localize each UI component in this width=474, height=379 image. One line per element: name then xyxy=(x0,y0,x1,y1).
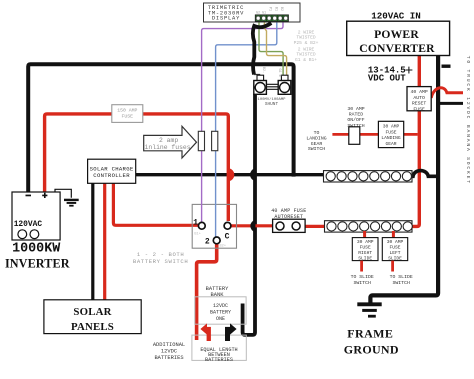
svg-text:FUSE: FUSE xyxy=(389,245,400,251)
power converter box xyxy=(347,21,450,55)
svg-text:BATTERIES: BATTERIES xyxy=(154,355,183,361)
svg-text:G2: G2 xyxy=(256,12,260,16)
svg-text:INVERTER: INVERTER xyxy=(5,256,70,270)
solar panels box xyxy=(44,300,141,334)
svg-text:RATED: RATED xyxy=(349,112,364,118)
svg-text:G1: G1 xyxy=(262,12,266,16)
40 AMP auto reset fuse box xyxy=(407,87,431,113)
svg-text:30 AMP: 30 AMP xyxy=(357,239,374,245)
svg-text:B2: B2 xyxy=(279,7,283,11)
svg-text:120VAC IN: 120VAC IN xyxy=(371,11,421,22)
svg-text:ON/OFF: ON/OFF xyxy=(347,117,364,123)
svg-text:LEFT: LEFT xyxy=(389,250,400,256)
to landing gear switch label xyxy=(306,130,326,152)
wire green display sense to shunt right bolt xyxy=(259,22,283,76)
svg-text:TO SLIDE: TO SLIDE xyxy=(351,274,374,280)
inline fuse F1 xyxy=(198,131,204,150)
30 AMP fuse left slide box xyxy=(382,238,407,262)
svg-text:BATTERY: BATTERY xyxy=(210,310,231,316)
svg-text:FRAME: FRAME xyxy=(347,326,393,340)
svg-text:G1 B: G1 B xyxy=(277,69,281,77)
wire black shunt-left negative bus down to battery, hops at y174 and y226 xyxy=(243,94,255,335)
svg-text:LANDING: LANDING xyxy=(306,135,326,141)
wire red converter plus lead down to bottom bus bar right end xyxy=(407,56,419,227)
svg-text:150 AMP: 150 AMP xyxy=(117,108,137,114)
wire red switch terminal 2 down-left to battery bank xyxy=(197,244,217,340)
svg-text:12VDC: 12VDC xyxy=(213,303,228,309)
display ground wire thick arc to shunt xyxy=(253,23,271,75)
svg-text:+: + xyxy=(405,63,414,79)
svg-text:C: C xyxy=(225,232,230,241)
wire purple display sense to fuse then switch terminal 1 xyxy=(202,22,283,223)
svg-text:BATTERY SWITCH: BATTERY SWITCH xyxy=(133,258,188,265)
svg-text:B2+: B2+ xyxy=(220,245,226,249)
svg-text:PANELS: PANELS xyxy=(71,321,114,333)
shunt label xyxy=(257,97,286,107)
30 AMP fuse right slide box xyxy=(352,238,378,262)
svg-text:TO: TO xyxy=(314,130,320,136)
wire red solar controller output to switch terminal 1 xyxy=(113,183,198,225)
wire red landing gear feed row xyxy=(332,133,417,136)
wire blue display sense to fuse then switch terminal 2 xyxy=(216,22,277,238)
svg-text:ONE: ONE xyxy=(216,316,225,322)
svg-text:CONVERTER: CONVERTER xyxy=(359,42,435,55)
30 AMP fuse landing gear box xyxy=(378,121,403,147)
svg-text:1000KW: 1000KW xyxy=(12,242,61,257)
on/off switch body xyxy=(349,127,360,145)
40 AMP autoreset fuse box xyxy=(273,219,306,232)
1-2-BOTH battery switch label xyxy=(133,251,188,265)
svg-text:P25 & B2+: P25 & B2+ xyxy=(294,40,319,46)
13-14.5 VDC OUT label xyxy=(368,66,406,84)
shunt right bolt xyxy=(278,75,291,94)
shunt pin labels xyxy=(261,67,281,77)
svg-text:SOLAR: SOLAR xyxy=(73,306,111,318)
svg-text:P1: P1 xyxy=(268,7,272,11)
frame ground symbol xyxy=(357,304,381,316)
wire black solar controller negative to panels xyxy=(91,183,94,299)
svg-text:B1: B1 xyxy=(273,7,277,11)
svg-text:120VAC: 120VAC xyxy=(14,220,43,229)
wire black main negative loop: inverter minus up, across top, down right side of shunt xyxy=(28,64,293,192)
trimetric display U1 xyxy=(204,3,301,22)
40 AMP fuse autoreset label xyxy=(271,208,306,220)
svg-text:40 AMP: 40 AMP xyxy=(410,89,427,95)
display ground wire thin step into left bolt xyxy=(254,75,260,79)
svg-text:SWITCH: SWITCH xyxy=(354,280,371,286)
svg-text:AUTO: AUTO xyxy=(413,95,425,101)
solar charge controller box xyxy=(88,159,136,183)
svg-text:B1+: B1+ xyxy=(194,233,200,237)
shunt bar hatch xyxy=(266,84,278,89)
2 wire twisted label A xyxy=(294,30,319,46)
svg-text:RIGHT: RIGHT xyxy=(358,250,372,256)
svg-text:2: 2 xyxy=(205,237,210,246)
inverter box xyxy=(12,192,60,240)
wire red banana socket lead with hop over black xyxy=(431,88,463,98)
svg-text:1 - 2 - BOTH: 1 - 2 - BOTH xyxy=(137,251,184,258)
svg-text:12VDC: 12VDC xyxy=(161,349,177,355)
wire tan display sense to shunt right bolt xyxy=(264,22,286,76)
wire red switch C to 40A autoreset fuse box xyxy=(231,224,273,227)
battery switch terminal 1 xyxy=(198,222,205,229)
svg-text:2 WIRE: 2 WIRE xyxy=(298,47,315,53)
wire black horizontal from solar controller to top bus bar xyxy=(136,173,327,176)
svg-text:inline fuses: inline fuses xyxy=(145,144,191,151)
battery switch terminal C xyxy=(224,222,231,229)
svg-text:TWISTED: TWISTED xyxy=(296,52,316,58)
inverter ground symbol xyxy=(55,189,79,205)
battery switch box xyxy=(192,204,236,248)
bottom bus bar xyxy=(325,221,413,232)
svg-text:GEAR: GEAR xyxy=(385,141,396,147)
svg-text:LANDING: LANDING xyxy=(381,135,401,141)
battery bank label xyxy=(206,286,229,298)
battery one box xyxy=(195,297,246,324)
svg-text:30 AMP: 30 AMP xyxy=(387,239,404,245)
wire black top bus bar right end, hop over red, to black vertical xyxy=(407,171,438,177)
svg-text:1: 1 xyxy=(193,218,198,227)
to slide switch labels xyxy=(351,274,413,286)
svg-text:GROUND: GROUND xyxy=(344,343,399,357)
inline fuse F2 xyxy=(212,131,218,150)
svg-text:TWISTED: TWISTED xyxy=(296,35,316,41)
svg-text:FUSE: FUSE xyxy=(385,129,396,135)
svg-text:FUSE: FUSE xyxy=(360,245,371,251)
black hop bump over red at y226 xyxy=(250,220,255,232)
equal length box xyxy=(192,335,246,363)
2 wire twisted label B xyxy=(295,47,317,63)
wire red stubs to slide switches xyxy=(362,261,393,272)
red battery link arrow xyxy=(200,323,207,334)
svg-text:SWITCH: SWITCH xyxy=(308,146,325,152)
svg-text:TO TRUCK 12VDC BANANA SOCKET: TO TRUCK 12VDC BANANA SOCKET xyxy=(465,56,471,185)
minus symbol xyxy=(442,65,451,68)
svg-text:POWER: POWER xyxy=(374,28,419,41)
wire red inverter plus via 150A fuse to switch C, hops black at y174 xyxy=(45,114,229,221)
svg-text:BATTERIES: BATTERIES xyxy=(205,357,233,363)
svg-text:CONTROLLER: CONTROLLER xyxy=(93,172,130,179)
30 amp rated on/off switch label xyxy=(347,106,364,129)
wire red solar controller positive to panels xyxy=(103,183,106,299)
svg-text:RESET: RESET xyxy=(412,101,427,107)
svg-text:SHUNT: SHUNT xyxy=(265,102,279,107)
svg-text:SLIDE: SLIDE xyxy=(388,256,402,262)
150 AMP fuse box xyxy=(112,105,143,123)
svg-text:FUSE: FUSE xyxy=(122,114,134,120)
2 amp inline fuses arrow label xyxy=(144,126,197,158)
red hop bump over black at y174 xyxy=(229,168,234,181)
wire red from 40A fuse box to bottom bus bar xyxy=(305,225,327,228)
svg-text:B2-: B2- xyxy=(261,67,265,73)
svg-text:ADDITIONAL: ADDITIONAL xyxy=(153,342,185,348)
svg-text:SWITCH: SWITCH xyxy=(393,280,410,286)
top bus bar xyxy=(324,171,413,182)
additional batteries label xyxy=(153,342,185,361)
shunt left bolt xyxy=(254,75,267,94)
battery switch labels xyxy=(193,218,229,246)
svg-text:G1 & B1+: G1 & B1+ xyxy=(295,57,317,63)
black junction bump at y174 xyxy=(250,168,255,181)
svg-text:GEAR: GEAR xyxy=(311,141,323,147)
display terminal pin labels xyxy=(256,7,283,16)
svg-text:2 amp: 2 amp xyxy=(159,137,178,144)
svg-text:30 AMP: 30 AMP xyxy=(347,106,364,112)
svg-text:FUSE: FUSE xyxy=(413,106,425,112)
wire black banana socket lead xyxy=(440,102,463,105)
wire black converter minus lead down to frame ground xyxy=(370,56,438,303)
wire red stubs bus bar to slide fuses xyxy=(365,231,394,238)
svg-text:2 WIRE: 2 WIRE xyxy=(298,30,315,36)
display terminal strip xyxy=(255,15,288,22)
battery switch terminal 2 xyxy=(213,237,220,244)
black battery link arrow xyxy=(230,323,237,334)
svg-text:30 AMP: 30 AMP xyxy=(383,124,400,130)
svg-text:TO SLIDE: TO SLIDE xyxy=(390,274,413,280)
svg-text:VDC OUT: VDC OUT xyxy=(368,73,406,83)
svg-text:DISPLAY: DISPLAY xyxy=(212,16,240,22)
